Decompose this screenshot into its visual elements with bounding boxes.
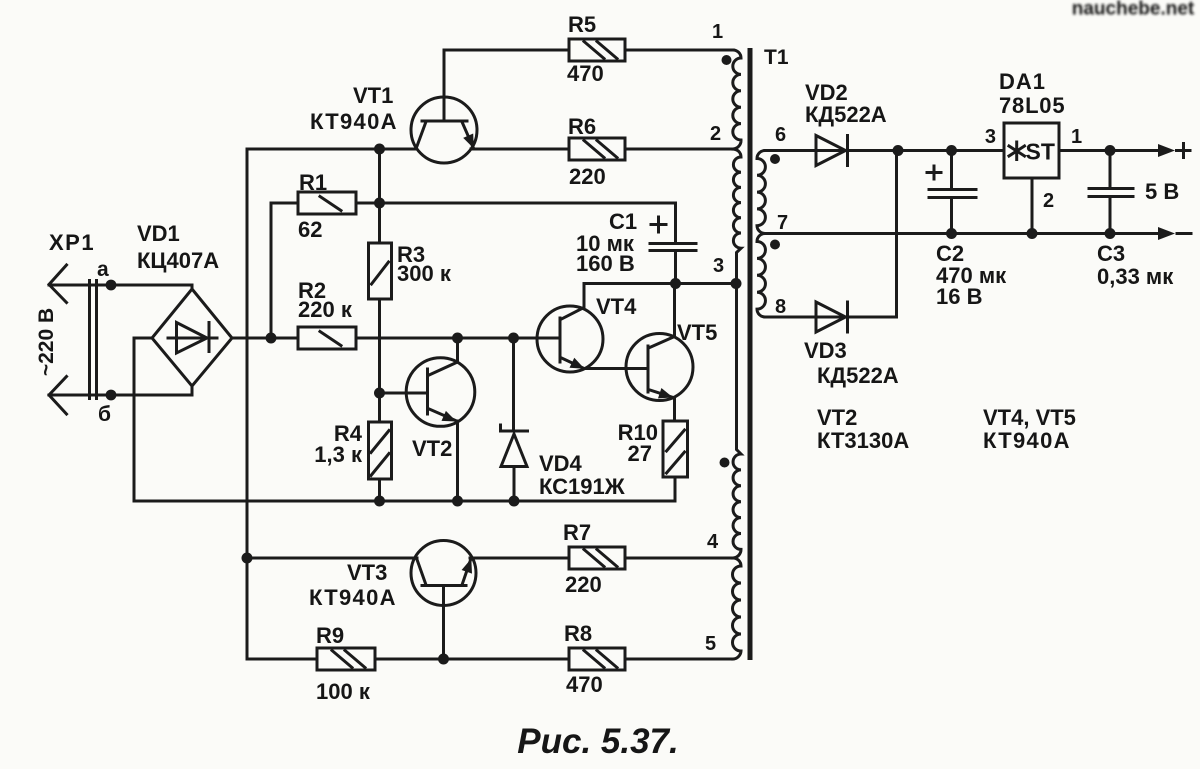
- node C3 bottom: [1105, 228, 1116, 239]
- T1 winding 3-4 polarity dot: [720, 458, 730, 468]
- T1 winding 6 polarity dot: [770, 154, 780, 164]
- svg-text:VT5: VT5: [677, 320, 717, 345]
- svg-text:VT2: VT2: [412, 436, 452, 461]
- svg-text:R9: R9: [316, 623, 344, 648]
- connector XP1: [35, 230, 111, 426]
- wire R3 to VT2 base and R4: [378, 299, 381, 422]
- svg-text:VT3: VT3: [347, 560, 387, 585]
- wire VT3 base: [247, 557, 417, 560]
- wire negative loop (bridge left to R10 bottom): [134, 338, 675, 501]
- T1 winding 3-4: [733, 284, 741, 559]
- node VT3 emitter: [438, 654, 449, 665]
- svg-text:78L05: 78L05: [999, 93, 1065, 118]
- svg-text:VT4: VT4: [596, 294, 637, 319]
- svg-text:VT4, VT5: VT4, VT5: [983, 405, 1076, 430]
- wire a: [49, 280, 192, 291]
- T1 winding 4-5: [733, 558, 742, 659]
- svg-text:220: 220: [569, 164, 606, 189]
- output minus arrow: [1158, 227, 1191, 240]
- svg-text:R1: R1: [299, 170, 327, 195]
- svg-text:КТ940А: КТ940А: [983, 428, 1071, 453]
- bridge rectifier VD1: [137, 221, 232, 386]
- node base wire: [374, 144, 385, 155]
- wire VD2 to node: [848, 149, 899, 152]
- resistor R1: [298, 170, 356, 242]
- wire VT4 emitter to VT5 base: [584, 367, 648, 370]
- node VT3 base branch: [242, 553, 253, 564]
- transformer T1 core: [748, 46, 789, 660]
- wire VT2 base: [380, 392, 428, 395]
- wire left rail: [247, 149, 317, 659]
- wire node3 row: [586, 255, 736, 284]
- resistor R2: [298, 278, 356, 349]
- svg-text:470: 470: [567, 61, 604, 86]
- wire R1 branch: [271, 203, 298, 338]
- node VT2 emitter: [452, 496, 463, 507]
- svg-text:4: 4: [707, 531, 719, 553]
- svg-text:VD1: VD1: [137, 221, 180, 246]
- svg-text:C3: C3: [1097, 241, 1125, 266]
- transistor VT1: [310, 50, 477, 163]
- node R4 bottom: [374, 496, 385, 507]
- wire VT1 base vertical: [378, 149, 381, 243]
- svg-text:КД522А: КД522А: [805, 102, 887, 127]
- node DA1 pin2: [1027, 228, 1038, 239]
- labels VT2 type: [817, 405, 909, 453]
- regulator DA1: [985, 69, 1082, 212]
- resistor R7: [563, 520, 625, 597]
- svg-text:а: а: [97, 258, 109, 281]
- capacitor C3: [1089, 151, 1174, 290]
- svg-text:R8: R8: [564, 621, 592, 646]
- svg-text:1,3 к: 1,3 к: [314, 442, 363, 467]
- node VT2 base: [374, 388, 385, 399]
- svg-text:б: б: [98, 403, 111, 426]
- wire node to DA1: [898, 149, 1004, 152]
- svg-text:220: 220: [565, 572, 602, 597]
- svg-text:6: 6: [775, 124, 786, 146]
- svg-text:T1: T1: [764, 46, 789, 69]
- svg-text:8: 8: [775, 296, 786, 318]
- node VT2 collector: [452, 333, 463, 344]
- wire VT1 emitter to R6: [471, 148, 569, 151]
- capacitor C2: [927, 151, 1007, 310]
- transistor VT5: [626, 284, 717, 422]
- svg-text:R6: R6: [568, 114, 596, 139]
- node base-R1: [374, 198, 385, 209]
- node R1 branch: [266, 333, 277, 344]
- svg-text:27: 27: [628, 441, 652, 466]
- svg-text:КС191Ж: КС191Ж: [539, 474, 625, 499]
- wire bridge output: [232, 337, 298, 340]
- wire R7 to T1 pin4: [625, 531, 733, 558]
- svg-text:1: 1: [712, 21, 723, 43]
- transistor VT4: [537, 284, 637, 373]
- transistor VT2: [406, 338, 475, 501]
- wire VT3 to R7: [470, 557, 569, 560]
- svg-text:470: 470: [566, 672, 603, 697]
- node VD4 top: [508, 333, 519, 344]
- svg-text:R5: R5: [568, 12, 596, 37]
- wire R4 bottom: [378, 479, 381, 501]
- svg-text:5: 5: [705, 633, 716, 655]
- wire VT1 collector to R5: [444, 49, 569, 52]
- wire R5 to T1 pin1: [625, 21, 733, 50]
- T1 winding 7-8: [757, 234, 765, 318]
- svg-text:XP1: XP1: [49, 230, 95, 255]
- svg-text:3: 3: [713, 255, 724, 277]
- transistor VT3: [309, 541, 476, 660]
- svg-text:5 В: 5 В: [1145, 179, 1179, 204]
- wire R2 to VT4 base: [356, 337, 560, 340]
- T1 winding 2-3: [733, 149, 741, 284]
- svg-text:КД522А: КД522А: [817, 363, 899, 388]
- node C2 bottom: [946, 228, 957, 239]
- svg-text:1: 1: [1071, 126, 1082, 148]
- svg-text:VD3: VD3: [804, 338, 847, 363]
- resistor R4: [314, 421, 391, 479]
- T1 winding 1 polarity dot: [722, 55, 732, 65]
- resistor R10: [618, 420, 688, 477]
- wire R8 to T1 pin5: [625, 633, 733, 659]
- wire R6 to T1 pin2: [625, 123, 733, 149]
- svg-text:nauchebe.net: nauchebe.net: [1072, 0, 1195, 20]
- wire DA1 out: [1059, 149, 1162, 152]
- svg-text:3: 3: [985, 126, 996, 148]
- wire node to C1: [380, 203, 676, 242]
- svg-text:DA1: DA1: [999, 69, 1046, 94]
- wire pin8 to VD3: [765, 296, 848, 318]
- svg-text:7: 7: [777, 212, 788, 234]
- wire VT1 base row: [247, 148, 417, 151]
- output plus arrow: [1145, 144, 1190, 205]
- svg-text:VT1: VT1: [353, 83, 393, 108]
- node C1 bottom / VT5 collector: [670, 278, 681, 289]
- svg-text:VT2: VT2: [817, 405, 857, 430]
- wire b: [49, 386, 192, 400]
- wire R9 to VT3 emitter and R8: [375, 658, 569, 661]
- svg-text:220 к: 220 к: [298, 297, 353, 322]
- resistor R8: [564, 621, 625, 697]
- node VD4 bottom: [509, 496, 520, 507]
- T1 winding 1-2: [733, 50, 741, 149]
- svg-text:0,33 мк: 0,33 мк: [1097, 264, 1174, 289]
- svg-text:КЦ407А: КЦ407А: [137, 248, 219, 273]
- diode VD3: [804, 302, 899, 388]
- svg-text:~220 В: ~220 В: [35, 308, 58, 376]
- diode VD2: [805, 80, 887, 166]
- resistor R9: [316, 623, 375, 704]
- svg-text:2: 2: [710, 123, 721, 145]
- capacitor C1: [576, 209, 696, 284]
- node T1 pin3: [731, 278, 742, 289]
- svg-text:16 В: 16 В: [936, 284, 982, 309]
- svg-text:160 В: 160 В: [576, 251, 635, 276]
- wire VD3 cathode up to node: [848, 151, 897, 318]
- wire pin7 ground rail: [765, 212, 1162, 234]
- wire pin6 to VD2: [765, 124, 848, 151]
- wire R1 to node: [356, 202, 380, 205]
- svg-text:62: 62: [298, 217, 322, 242]
- resistor R3: [369, 242, 452, 299]
- svg-text:R7: R7: [563, 520, 591, 545]
- svg-text:100 к: 100 к: [316, 679, 371, 704]
- svg-text:КТ940А: КТ940А: [309, 585, 397, 610]
- node C2 top: [946, 145, 957, 156]
- svg-text:Рис. 5.37.: Рис. 5.37.: [517, 722, 678, 761]
- node VD2/VD3 cathodes: [893, 145, 904, 156]
- node C3 top: [1105, 145, 1116, 156]
- wire DA1 pin2: [1031, 178, 1034, 234]
- svg-text:КТ3130А: КТ3130А: [817, 428, 909, 453]
- svg-text:VD4: VD4: [539, 451, 583, 476]
- svg-text:300 к: 300 к: [397, 261, 452, 286]
- T1 winding 6-7: [757, 151, 765, 234]
- svg-text:КТ940А: КТ940А: [310, 109, 398, 134]
- labels VT4 VT5 type: [983, 405, 1076, 453]
- svg-text:ST: ST: [1026, 139, 1055, 165]
- resistor R5: [567, 12, 625, 86]
- zener diode VD4: [501, 338, 625, 501]
- T1 winding 7-8 polarity dot: [770, 240, 780, 250]
- resistor R6: [568, 114, 625, 189]
- svg-text:2: 2: [1043, 190, 1054, 212]
